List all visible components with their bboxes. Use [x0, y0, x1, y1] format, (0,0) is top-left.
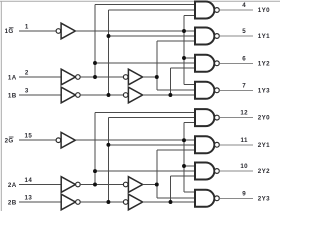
- wire A2 true run: [143, 184, 157, 186]
- wire E2 to Y0 bottom: [184, 122, 195, 124]
- wire A2 to Y1 bottom: [157, 149, 195, 151]
- node A2-bar/Y2 tap (junction): [93, 169, 97, 173]
- wire 1Y3 output: [219, 89, 253, 91]
- svg-text:1: 1: [25, 23, 29, 30]
- wire E1 to Y0 bottom: [184, 14, 195, 16]
- wire A1 true run: [143, 76, 157, 78]
- NAND gate G10 (1Y0): [195, 2, 219, 19]
- inverter U1B1: [61, 87, 80, 103]
- wire 1B input: [19, 94, 61, 96]
- svg-text:5: 5: [242, 28, 246, 35]
- inverter U2B2: [123, 194, 142, 210]
- svg-text:1G: 1G: [5, 28, 14, 35]
- node B2-bar tap (junction): [106, 200, 110, 204]
- svg-text:4: 4: [242, 2, 246, 9]
- node E2 tap on enable run (junction): [182, 138, 186, 142]
- inverter U1A2: [123, 69, 142, 85]
- inverter U1B2: [123, 87, 142, 103]
- NAND gate G21 (2Y1): [195, 136, 219, 153]
- svg-text:11: 11: [241, 137, 248, 144]
- wire B1 to Y2 bottom: [170, 67, 195, 69]
- wire 2G input: [19, 139, 56, 141]
- wire A1 to Y3 mid: [157, 89, 195, 91]
- wire E2 to Y2 top: [184, 165, 195, 167]
- wire A2 vertical: [156, 150, 158, 198]
- svg-text:1Y0: 1Y0: [258, 7, 270, 14]
- wire B1-bar to Y0 mid: [109, 9, 196, 11]
- svg-text:1Y2: 1Y2: [258, 60, 270, 67]
- wire 1Y1 output: [219, 35, 253, 37]
- node A1 tap (junction): [155, 75, 159, 79]
- node A1-bar/Y2 tap (junction): [93, 61, 97, 65]
- NAND gate G22 (2Y2): [195, 163, 219, 180]
- wire A1 to Y1 bottom: [157, 40, 195, 42]
- wire B1-bar vertical: [108, 10, 110, 95]
- wire B2 to Y2 bottom: [171, 175, 196, 177]
- wire 2A input: [19, 184, 61, 186]
- node E1 tap on enable run (junction): [182, 29, 186, 33]
- wire 1Y2 output: [219, 62, 253, 64]
- wire A2-bar branch to Y2: [95, 170, 195, 172]
- svg-text:2Y3: 2Y3: [258, 195, 270, 202]
- node A2-bar tap (junction): [93, 183, 97, 187]
- node B2 tap (junction): [169, 200, 173, 204]
- svg-text:10: 10: [240, 163, 248, 170]
- wire A1-bar vertical: [94, 5, 96, 77]
- wire E2 vertical: [183, 123, 185, 192]
- NAND gate G13 (1Y3): [195, 82, 219, 99]
- wire B2-bar run: [80, 201, 123, 203]
- svg-text:1Y3: 1Y3: [258, 87, 270, 94]
- inverter U2G (enable): [56, 132, 75, 148]
- node B1 tap (junction): [168, 93, 172, 97]
- wire E1 to Y3 top: [184, 83, 195, 85]
- svg-text:3: 3: [25, 87, 29, 94]
- svg-text:13: 13: [25, 194, 33, 201]
- wire A1 vertical: [156, 41, 158, 90]
- wire B2 vertical: [170, 176, 172, 202]
- NAND gate G23 (2Y3): [195, 190, 219, 207]
- wire A2 to Y3 mid: [157, 197, 195, 199]
- wire E2 to Y3 top: [184, 191, 195, 193]
- wire enable E1 run: [75, 30, 195, 32]
- node B1-bar tap (junction): [107, 93, 111, 97]
- wire B1 true run to gate: [143, 94, 195, 96]
- node B1-bar/Y1 tap (junction): [107, 34, 111, 38]
- node E2/Y2 tap (junction): [182, 164, 186, 168]
- wire B2 true run to gate: [143, 201, 195, 203]
- wire B2-bar vertical: [107, 118, 109, 203]
- NAND gate G20 (2Y0): [195, 109, 219, 126]
- wire B1 vertical: [169, 68, 171, 95]
- svg-text:9: 9: [242, 190, 246, 197]
- wire 1Y0 output: [219, 9, 253, 11]
- svg-text:1Y1: 1Y1: [258, 33, 270, 40]
- node E1/Y2 tap (junction): [182, 56, 186, 60]
- wire enable E2 run: [75, 139, 195, 141]
- svg-text:2Y0: 2Y0: [258, 115, 270, 122]
- wire 2Y0 output: [219, 117, 253, 119]
- wire A2-bar run: [80, 184, 123, 186]
- node A2 tap (junction): [155, 183, 159, 187]
- svg-text:2B: 2B: [8, 200, 17, 207]
- NAND gate G12 (1Y2): [195, 55, 219, 72]
- wire 2Y1 output: [219, 144, 253, 146]
- inverter U2A1: [61, 177, 80, 193]
- wire A1-bar to Y0 top: [95, 4, 195, 6]
- svg-text:14: 14: [25, 177, 33, 184]
- wire E1 to Y2 top: [184, 57, 195, 59]
- wire B1-bar branch to Y1: [109, 35, 196, 37]
- node B2-bar/Y1 tap (junction): [106, 143, 110, 147]
- wire B2-bar to Y0 mid: [108, 117, 195, 119]
- svg-text:7: 7: [242, 82, 246, 89]
- wire A1-bar branch to Y2: [95, 62, 195, 64]
- NAND gate G11 (1Y1): [195, 28, 219, 45]
- wire A2-bar vertical: [94, 112, 96, 184]
- wire 1G input: [19, 30, 56, 32]
- svg-text:1A: 1A: [8, 75, 17, 82]
- wire 2Y2 output: [219, 170, 253, 172]
- svg-text:15: 15: [25, 133, 33, 140]
- svg-text:2A: 2A: [8, 182, 17, 189]
- wire B1-bar run: [80, 94, 123, 96]
- svg-text:1B: 1B: [8, 93, 17, 100]
- inverter U1A1: [61, 69, 80, 85]
- wire 2B input: [19, 201, 61, 203]
- svg-text:2: 2: [25, 69, 29, 76]
- wire A2-bar to Y0 top: [95, 111, 195, 113]
- wire A1-bar run: [80, 76, 123, 78]
- wire 2Y3 output: [219, 197, 253, 199]
- inverter U2A2: [123, 177, 142, 193]
- inverter U2B1: [61, 194, 80, 210]
- svg-text:12: 12: [240, 110, 248, 117]
- svg-text:6: 6: [242, 55, 246, 62]
- svg-text:2G: 2G: [5, 137, 14, 144]
- wire E1 vertical: [183, 15, 185, 84]
- wire B2-bar branch to Y1: [108, 144, 195, 146]
- node A1-bar tap (junction): [93, 75, 97, 79]
- svg-text:2Y1: 2Y1: [258, 142, 270, 149]
- wire 1A input: [19, 76, 61, 78]
- inverter U1G (enable): [56, 23, 75, 39]
- svg-text:2Y2: 2Y2: [258, 168, 270, 175]
